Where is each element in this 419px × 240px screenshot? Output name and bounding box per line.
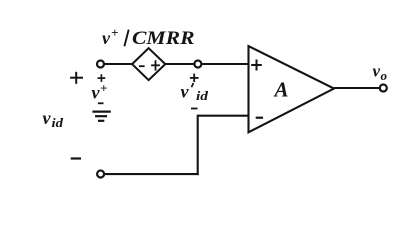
wire (334, 87, 380, 89)
label + v'id polarity (190, 74, 199, 83)
svg-text:o: o (381, 68, 388, 83)
svg-text:v: v (102, 28, 111, 48)
svg-text:+: + (111, 25, 118, 40)
wire (198, 115, 249, 117)
terminal vo (380, 85, 387, 92)
terminal node top-left (97, 61, 104, 68)
wire (105, 173, 199, 175)
label - vid polarity (71, 157, 81, 159)
svg-text:v: v (373, 62, 381, 81)
label vid (43, 108, 64, 130)
op-amp U1 A (249, 46, 335, 132)
label + v+ polarity (98, 74, 106, 82)
wire (202, 63, 249, 65)
svg-text:v: v (181, 82, 190, 102)
svg-text:id: id (52, 115, 64, 130)
terminal node bottom-left (97, 171, 104, 178)
label vo (373, 62, 388, 84)
label + vid polarity (70, 72, 83, 84)
svg-text:v: v (43, 108, 52, 128)
terminal node v'id (194, 61, 201, 68)
svg-text:id: id (196, 88, 209, 103)
ground (92, 112, 110, 121)
label v+ (92, 81, 108, 103)
label v'id (181, 82, 209, 104)
wire (105, 63, 133, 65)
svg-text:CMRR: CMRR (132, 28, 195, 49)
svg-text:A: A (273, 78, 289, 102)
dependent source v+/CMRR (132, 48, 165, 80)
label v+/CMRR (102, 25, 195, 49)
label - v+ polarity (98, 102, 104, 104)
wire (197, 115, 199, 175)
wire (165, 63, 194, 65)
label - v'id polarity (191, 108, 198, 110)
svg-text:+: + (100, 81, 107, 96)
